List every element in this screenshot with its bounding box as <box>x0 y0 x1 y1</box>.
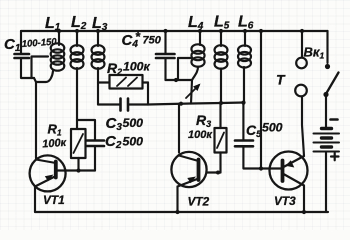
label VT2 <box>188 195 210 209</box>
label L2 <box>71 14 87 32</box>
capacitor C3 <box>98 99 148 111</box>
inductor L3 <box>92 31 105 105</box>
label C1 <box>4 36 21 54</box>
wire VT3 base from top bus <box>260 31 262 169</box>
wire VT2 collector <box>178 104 180 153</box>
label R1 value <box>42 137 68 151</box>
svg-text:L2: L2 <box>71 14 87 32</box>
resistor R3 <box>215 103 227 173</box>
wire VT3 emitter to phones <box>302 97 304 157</box>
svg-text:750: 750 <box>143 35 162 47</box>
svg-text:C5: C5 <box>246 122 262 139</box>
label C1 value 100-150 <box>21 37 57 50</box>
node VT3 collector bus <box>302 210 306 214</box>
node L4 top <box>198 29 202 33</box>
svg-text:L5: L5 <box>214 14 230 32</box>
svg-text:C2: C2 <box>105 133 122 151</box>
node L6 top <box>243 29 247 33</box>
wire L1 bottom to collector line <box>34 71 53 82</box>
label L5 <box>214 14 230 32</box>
label L3 <box>92 15 108 33</box>
label R3 <box>196 112 211 129</box>
svg-text:VT3: VT3 <box>274 194 296 208</box>
label C3 value <box>123 116 144 130</box>
svg-text:R1: R1 <box>48 122 62 138</box>
wire middle node horizontal <box>148 103 244 105</box>
svg-text:L4: L4 <box>188 14 204 32</box>
svg-text:VT2: VT2 <box>188 195 210 209</box>
label C3 <box>106 115 123 133</box>
capacitor C2 <box>77 120 104 171</box>
svg-text:C3: C3 <box>106 115 123 133</box>
capacitor C5 <box>235 103 270 169</box>
resistor R1 <box>71 120 86 171</box>
node R1 base junction <box>76 168 80 172</box>
node L5 top <box>219 29 223 33</box>
svg-text:500: 500 <box>262 121 283 135</box>
node VT2 emitter bus <box>175 210 179 214</box>
label VT1 <box>43 193 65 207</box>
transistor VT3 <box>270 152 308 190</box>
node C4 L4 junction <box>174 78 178 82</box>
label R2 <box>107 60 122 77</box>
wire bottom bus <box>35 211 328 213</box>
node L5 bottom <box>219 101 223 105</box>
label R3 value <box>188 129 213 141</box>
svg-text:Вк1: Вк1 <box>304 45 325 61</box>
inductor L4 <box>191 31 204 80</box>
wire VT1 base <box>56 169 95 171</box>
capacitor C1 <box>15 31 35 78</box>
wire L4 down to bus wire <box>191 80 192 104</box>
transistor VT1 <box>30 155 66 191</box>
label C5 <box>246 122 262 139</box>
label VT3 <box>274 194 296 208</box>
label R2 value <box>123 60 151 74</box>
svg-text:500: 500 <box>123 135 144 149</box>
node L2 top <box>75 29 79 33</box>
label L1 <box>45 15 61 33</box>
label battery plus <box>331 153 339 160</box>
inductor L1 <box>51 31 65 71</box>
phone terminal upper <box>296 31 307 68</box>
inductor L2 <box>71 31 84 120</box>
label R1 <box>48 122 62 138</box>
label T <box>276 72 286 88</box>
wire VT1 emitter <box>34 187 36 213</box>
wire C4 to L4 <box>166 79 179 81</box>
wire L1 tap loop <box>32 57 49 79</box>
svg-text:L6: L6 <box>238 14 254 32</box>
arrow L4 adjustable <box>186 84 201 99</box>
label battery minus <box>331 118 338 121</box>
node C4 top <box>163 29 167 33</box>
inductor L5 <box>215 31 228 103</box>
node L1 top <box>57 29 61 33</box>
wire top bus <box>21 30 328 32</box>
label C5 value <box>262 121 283 135</box>
wire VT3 collector <box>303 186 305 213</box>
capacitor C4 <box>156 31 175 80</box>
phone terminal lower <box>295 85 307 97</box>
wire VT1 collector <box>35 82 37 159</box>
svg-text:T: T <box>276 72 286 88</box>
svg-text:C1: C1 <box>4 36 21 54</box>
label C2 value <box>123 135 144 149</box>
inductor L6 <box>238 31 251 103</box>
wire VT2 emitter <box>176 187 178 213</box>
svg-text:100-150: 100-150 <box>21 37 57 50</box>
label C4 <box>122 29 162 50</box>
node VT3 base top <box>259 29 263 33</box>
label C2 <box>105 133 122 151</box>
label Bk1 <box>304 45 325 61</box>
node C5 top <box>241 101 245 105</box>
wire R2C3 right node <box>147 83 149 105</box>
node VT2 collector junction <box>179 102 183 106</box>
svg-text:VT1: VT1 <box>43 193 65 207</box>
label L6 <box>238 14 254 32</box>
switch Bk1 <box>323 31 338 128</box>
svg-text:100к: 100к <box>188 129 213 141</box>
svg-text:500: 500 <box>123 116 144 130</box>
label L4 <box>188 14 204 32</box>
battery GB1 <box>314 129 340 213</box>
node T top <box>300 29 304 33</box>
node VT3 base junction <box>259 166 263 170</box>
node L3 top <box>96 29 100 33</box>
svg-text:R2: R2 <box>107 60 122 77</box>
resistor R2 <box>98 75 148 89</box>
wire L4 tap loop <box>178 58 192 80</box>
svg-text:100к: 100к <box>123 60 151 74</box>
svg-text:100к: 100к <box>42 137 68 151</box>
transistor VT2 <box>171 152 220 187</box>
svg-text:R3: R3 <box>196 112 211 129</box>
